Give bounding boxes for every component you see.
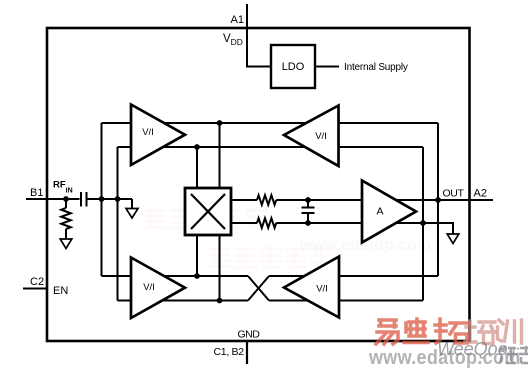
wire bottom rail upper right (269, 275, 438, 277)
wire crossover diagonal 1 (248, 276, 269, 301)
wire LDO output (315, 66, 339, 68)
pin C2 (EN stub) (23, 288, 47, 290)
V/I amp U2 (top-left) (131, 105, 185, 166)
junction lower feedback node (420, 220, 426, 226)
V/I amp U3 (top-right) (284, 106, 339, 167)
wire from capacitor to rails (87, 198, 133, 200)
junction top rail lower / mixer feed (194, 144, 200, 150)
junction capacitor bottom (305, 220, 311, 226)
wire mixer feed right (vertical) (219, 123, 221, 188)
junction bottom rail upper / mixer (194, 273, 200, 279)
junction rail2-RF (115, 196, 121, 202)
junction bottom rail lower / mixer (217, 298, 223, 304)
wire mixer out bottom right (vertical) (219, 235, 221, 301)
V/I amp U5 (bottom-right) (284, 257, 339, 318)
junction rail1-RF (99, 196, 105, 202)
wire mixer out bottom left (vertical) (196, 235, 198, 276)
wire R3 to ground tap (276, 223, 453, 234)
ground (input tap) (126, 209, 138, 219)
wire ground tap right of rails (131, 199, 133, 209)
capacitor C4 (between signal lines) (302, 200, 315, 223)
wire right vertical 1 (upper loop) (437, 123, 439, 276)
wire bottom rail upper (102, 275, 249, 277)
pin A1 / VDD wire to LDO (247, 4, 271, 67)
wire bottom rail lower (118, 300, 249, 302)
wire top rail lower (118, 146, 424, 148)
junction RF input node (63, 196, 69, 202)
ghost watermark row A (143, 208, 266, 229)
ghost watermark row B (208, 247, 331, 268)
wire mixer output upper to OUT (signal line) (231, 199, 257, 201)
wire R2 to OUT pin (276, 199, 493, 201)
wire left rail 2 (vertical) (117, 147, 119, 301)
pin C1,B2 (GND stub) (246, 341, 248, 364)
wire RF input line (node RFIN) (47, 198, 80, 200)
pin B1 (RF input stub) (26, 198, 47, 200)
watermark script WeeQoo (437, 340, 519, 358)
V/I amp U4 (bottom-left) (131, 258, 185, 319)
resistor R2 (257, 195, 276, 205)
capacitor C3 input coupling (81, 192, 87, 207)
outer box (IC boundary) (47, 28, 470, 341)
wire bottom rail lower right (269, 300, 423, 302)
junction top rail upper / mixer feed (217, 120, 223, 126)
mixer X1 (185, 188, 231, 235)
watermark 维库 (fake CJK glyphs) (498, 344, 528, 368)
wire crossover diagonal 2 (248, 276, 269, 301)
junction OUT node (435, 197, 441, 203)
junction capacitor top (305, 197, 311, 203)
resistor R3 (257, 218, 276, 228)
op-amp A (output amplifier) (362, 181, 416, 243)
wire mixer feed left (vertical) (196, 147, 198, 188)
ground (output side) (447, 234, 459, 244)
wire right vertical 2 (lower loop) (422, 147, 424, 301)
ground (under R1) (60, 239, 72, 249)
LDO U1 (271, 45, 315, 88)
watermark url www.edatop.com (369, 347, 521, 367)
resistor R1 (input shunt) (61, 199, 71, 239)
wire left rail 1 (vertical) (101, 123, 103, 276)
wire top rail upper (102, 122, 439, 124)
wire mixer output lower (231, 222, 257, 224)
